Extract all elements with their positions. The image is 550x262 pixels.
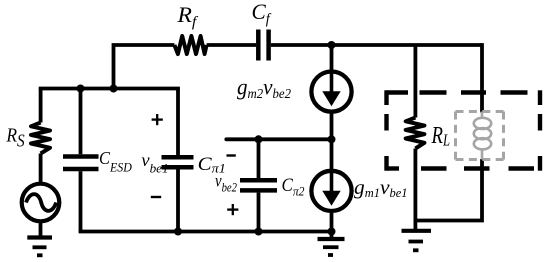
wire RS to source <box>39 154 43 183</box>
wire vbe1 bottom <box>176 169 180 231</box>
label minus vbe1 <box>151 196 161 198</box>
wire Cpi2 top <box>257 139 261 178</box>
resistor Rf <box>174 36 206 54</box>
wire top source lead <box>330 45 334 72</box>
wire ground bus <box>81 232 332 234</box>
node A junction dot top <box>328 41 336 49</box>
capacitor CESD <box>63 157 99 170</box>
junction dot bus Cpi2 <box>255 228 263 236</box>
wire input node line <box>41 89 178 91</box>
capacitor Cpi1 <box>162 157 194 167</box>
wire between current sources <box>330 114 334 171</box>
wire top-left corner feedback path <box>114 45 175 90</box>
junction dot Cpi2 top <box>255 135 263 143</box>
junction dot CESD node <box>77 85 85 93</box>
label minus vbe2 <box>227 154 236 156</box>
wire output bottom segment <box>415 159 482 221</box>
junction dot feedback node <box>110 85 118 93</box>
wire right vertical into inductor box <box>482 45 484 113</box>
label plus vbe2 <box>227 204 238 215</box>
wire vbe1 top <box>176 89 180 156</box>
junction dot bus gm1 <box>328 228 336 236</box>
load box (dashed) top edge <box>387 90 528 94</box>
capacitor Cf <box>258 30 268 61</box>
wire source to ground <box>39 221 43 236</box>
ground (RL) <box>402 221 432 251</box>
resistor RS <box>31 123 50 154</box>
wire RL top <box>413 45 417 118</box>
inductor L (gray coil) <box>474 112 491 160</box>
capacitor Cpi2 <box>240 180 277 190</box>
wire Rf to Cf <box>207 43 257 47</box>
wire gm1 to ground <box>330 212 334 237</box>
wire CESD top <box>79 89 83 155</box>
inductor box (gray dashed) <box>456 112 504 160</box>
ground (gm1) <box>318 239 345 255</box>
current source gm2vbe2 <box>311 71 351 112</box>
load box (dashed) bottom edge <box>387 166 535 170</box>
resistor RL <box>406 118 425 149</box>
label plus vbe1 <box>152 114 163 125</box>
wire RL bottom <box>413 149 417 221</box>
wire Cf to top-right corner <box>271 43 482 47</box>
load box (dashed) left edge <box>384 90 388 170</box>
junction dot bus vbe1 <box>174 228 182 236</box>
wire CESD bottom <box>79 171 83 231</box>
junction dot between sources <box>328 135 336 143</box>
wire Cpi2 bottom <box>257 193 261 232</box>
voltage source VS <box>22 184 60 222</box>
wire base stub <box>226 137 331 141</box>
ground (source) <box>27 238 52 256</box>
load box (dashed) right edge <box>538 90 542 170</box>
current source gm1vbe1 <box>311 171 351 211</box>
wire RS top <box>39 89 43 123</box>
